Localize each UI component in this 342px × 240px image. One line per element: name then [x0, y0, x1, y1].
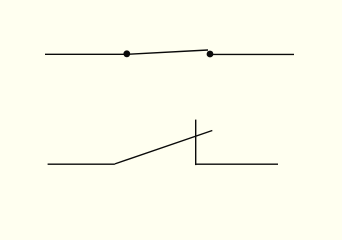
wire (open switch S2, left lead): [48, 163, 115, 165]
switch blade (S1, closed): [127, 50, 208, 54]
wire (closed switch S1, right lead): [212, 53, 294, 55]
wire (closed switch S1, left lead): [45, 53, 125, 55]
junction dot (S1 left terminal): [123, 50, 130, 57]
fixed contact pin (S2 vertical line): [195, 120, 197, 166]
switch blade (S2, open): [115, 131, 212, 164]
junction dot (S1 right terminal): [207, 51, 214, 58]
wire (open switch S2, right lead): [196, 163, 278, 165]
